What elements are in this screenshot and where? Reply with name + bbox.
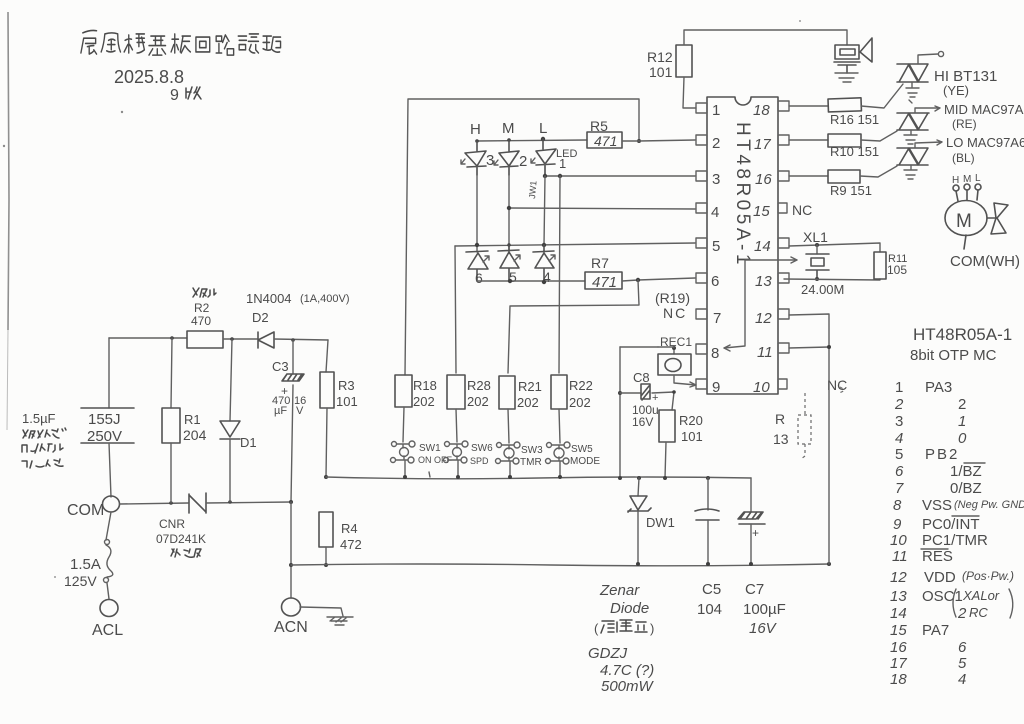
- svg-text:1: 1: [712, 102, 720, 119]
- pin 3: [696, 171, 707, 181]
- triac Q1 HI BT131: [897, 64, 928, 82]
- wire top rail from C1 to R2: [109, 337, 187, 339]
- svg-text:C7: C7: [745, 581, 764, 598]
- svg-text:DW1: DW1: [646, 515, 675, 530]
- svg-text:1: 1: [958, 413, 966, 430]
- svg-text:8: 8: [893, 497, 902, 514]
- switch SW5: [546, 442, 571, 477]
- svg-text:10: 10: [890, 532, 907, 549]
- resistor R13 dashed (absent): [798, 387, 844, 459]
- svg-text:9: 9: [712, 379, 720, 396]
- triac Q2 MID MAC97A6: [897, 113, 929, 130]
- pin 18: [778, 101, 789, 111]
- wire left rail of REC1: [619, 347, 621, 477]
- svg-text:104: 104: [697, 601, 722, 618]
- svg-text:13: 13: [890, 588, 907, 605]
- svg-text:6: 6: [958, 639, 967, 656]
- svg-text:SW3: SW3: [521, 445, 543, 456]
- wire R16 to triac HI gate: [861, 84, 903, 108]
- svg-text:R9 151: R9 151: [830, 183, 872, 198]
- node R1 top: [170, 336, 174, 340]
- svg-text:R3: R3: [338, 378, 355, 393]
- svg-text:7: 7: [895, 480, 904, 497]
- pin 11: [778, 343, 789, 353]
- svg-text:PA7: PA7: [922, 622, 949, 639]
- svg-text:HT48R05A-1: HT48R05A-1: [913, 325, 1012, 344]
- resistor R10 151: [828, 134, 861, 147]
- svg-text:101: 101: [336, 394, 358, 409]
- svg-text:V: V: [296, 405, 304, 417]
- pin 13: [778, 273, 789, 283]
- wire REC1 to R20: [672, 392, 674, 410]
- wire left vertical down to C1: [108, 338, 110, 408]
- node ACN/COM junction: [289, 500, 293, 504]
- svg-text:PB2: PB2: [925, 446, 959, 463]
- pin 10 NC: [778, 379, 787, 389]
- svg-text:SW1: SW1: [419, 443, 441, 454]
- svg-text:R21: R21: [518, 379, 542, 394]
- op-amp U1 body: [707, 97, 778, 394]
- svg-text:202: 202: [467, 394, 489, 409]
- svg-text:100µF: 100µF: [743, 601, 786, 618]
- svg-text:6: 6: [711, 273, 719, 290]
- svg-text:18: 18: [753, 102, 770, 119]
- pin 5: [696, 238, 707, 248]
- pin 12: [778, 309, 789, 319]
- pin 15 NC: [778, 203, 787, 213]
- svg-text:471: 471: [594, 133, 617, 149]
- svg-text:4: 4: [895, 430, 903, 447]
- svg-text:PC1/TMR: PC1/TMR: [922, 532, 988, 549]
- svg-text:L: L: [539, 120, 547, 137]
- capacitor C3 electrolytic: [292, 340, 294, 374]
- svg-text:µF: µF: [274, 405, 287, 417]
- svg-text:9: 9: [170, 87, 179, 104]
- svg-text:16: 16: [890, 639, 907, 656]
- svg-text:3: 3: [712, 171, 720, 188]
- svg-text:1N4004: 1N4004: [246, 291, 292, 306]
- svg-text:16V: 16V: [632, 415, 653, 429]
- wire pin18 to R16: [789, 105, 828, 107]
- overline RES pin11: [921, 548, 948, 550]
- svg-text:9: 9: [893, 516, 902, 533]
- svg-text:24.00M: 24.00M: [801, 282, 844, 297]
- svg-text:RC: RC: [969, 605, 988, 620]
- svg-text:8bit OTP MC: 8bit OTP MC: [910, 347, 997, 364]
- resistor R20 101: [659, 410, 675, 442]
- title kanji 扇風機基板回路読取: [81, 30, 281, 55]
- svg-text:SPD: SPD: [470, 456, 489, 466]
- svg-text:H: H: [470, 121, 481, 138]
- svg-text:R28: R28: [467, 378, 491, 393]
- node C3 top: [291, 338, 295, 342]
- svg-text:15: 15: [753, 203, 770, 220]
- svg-text:3: 3: [895, 413, 903, 430]
- svg-text:07D241K: 07D241K: [156, 532, 206, 546]
- svg-text:202: 202: [413, 394, 435, 409]
- svg-text:13: 13: [773, 431, 789, 447]
- paper specks: [799, 20, 801, 22]
- svg-text:2: 2: [519, 153, 527, 170]
- svg-text:1.5A: 1.5A: [70, 556, 101, 573]
- svg-text:204: 204: [183, 427, 207, 443]
- svg-text:16: 16: [755, 171, 772, 188]
- paper edge shadow: [8, 12, 9, 330]
- resistor R22: [551, 375, 567, 409]
- pin 7: [696, 309, 707, 319]
- svg-text:15: 15: [890, 622, 907, 639]
- capacitor C5: [706, 476, 710, 480]
- wire R5 to pin2: [622, 140, 695, 141]
- svg-text:3: 3: [486, 152, 494, 169]
- svg-text:ON OFF: ON OFF: [418, 455, 452, 465]
- wire REC1 to pin9: [674, 375, 696, 387]
- svg-text:472: 472: [340, 537, 362, 552]
- wire COM line to CNR: [120, 503, 188, 504]
- resistor R4: [324, 475, 328, 479]
- svg-text:11: 11: [892, 548, 908, 565]
- svg-text:17: 17: [754, 136, 771, 153]
- resistor R11 105: [874, 252, 886, 279]
- ground at ACN: [300, 607, 353, 625]
- pin 2: [696, 135, 707, 145]
- svg-text:): ): [650, 621, 654, 636]
- svg-text:(RE): (RE): [952, 117, 977, 131]
- svg-text:R4: R4: [341, 521, 358, 536]
- ground triac LO: [904, 165, 917, 179]
- svg-text:JW1: JW1: [527, 180, 539, 199]
- svg-text:+: +: [752, 526, 759, 540]
- triac Q3 LO MAC97A6: [897, 148, 928, 165]
- svg-text:18: 18: [890, 671, 907, 688]
- wire VSS switch bus: [326, 477, 751, 479]
- pin 16: [778, 171, 789, 181]
- svg-text:C8: C8: [633, 370, 650, 385]
- svg-text:1: 1: [895, 379, 903, 396]
- buzzer BZ piezo: [834, 45, 860, 73]
- wire top loop rail: [405, 99, 639, 375]
- pin list rows: [890, 379, 1024, 688]
- capacitor C7 electrolytic: [750, 478, 752, 512]
- wire LED top row: [477, 140, 587, 141]
- svg-text:202: 202: [517, 395, 539, 410]
- wire pin17 to R10: [789, 139, 828, 141]
- LED1 L: [536, 139, 556, 176]
- svg-text:4.7C (?): 4.7C (?): [600, 662, 654, 679]
- svg-text:5: 5: [712, 238, 720, 255]
- wire pin11: [789, 347, 829, 348]
- svg-text:(1A,400V): (1A,400V): [300, 293, 350, 305]
- svg-text:(YE): (YE): [943, 83, 969, 98]
- svg-text:COM(WH): COM(WH): [950, 253, 1020, 270]
- svg-text:M: M: [956, 211, 972, 232]
- capacitor C1 155J film: [81, 408, 134, 443]
- wire C1 to COM: [109, 443, 111, 497]
- pin 17: [778, 135, 789, 145]
- svg-text:R: R: [775, 411, 785, 427]
- svg-text:C3: C3: [272, 359, 289, 374]
- LED3 H: [465, 141, 486, 175]
- svg-text:R2: R2: [194, 301, 210, 315]
- wire triac HI to terminal: [918, 54, 938, 64]
- svg-text:4: 4: [958, 671, 966, 688]
- wire R10 to triac MID gate: [861, 131, 897, 141]
- svg-text:471: 471: [592, 274, 617, 291]
- svg-text:L: L: [975, 173, 981, 184]
- switch SW6: [444, 441, 469, 477]
- wire pin4 net: [509, 208, 695, 209]
- resistor R21: [499, 376, 515, 409]
- jumper JW1: [544, 176, 545, 245]
- pin 8: [696, 344, 707, 354]
- svg-text:ACN: ACN: [274, 619, 308, 636]
- pin 1: [696, 103, 707, 113]
- svg-text:PA3: PA3: [925, 379, 952, 396]
- node D1 top: [230, 337, 234, 341]
- svg-text:5: 5: [895, 446, 903, 463]
- svg-text:VSS: VSS: [922, 497, 952, 514]
- terminal ACN: [282, 598, 301, 616]
- svg-text:1: 1: [559, 156, 566, 171]
- overline BZ pin6: [964, 462, 985, 464]
- svg-text:2: 2: [712, 135, 720, 152]
- wire R22 column from pin3 net: [559, 176, 560, 373]
- svg-text:PC0/INT: PC0/INT: [922, 516, 980, 533]
- svg-text:101: 101: [649, 64, 673, 80]
- svg-text:202: 202: [569, 395, 591, 410]
- svg-text:SW5: SW5: [571, 444, 593, 455]
- svg-text:11: 11: [757, 344, 773, 361]
- resistor R9 151: [828, 170, 860, 183]
- wire pin16 to R9: [789, 175, 828, 177]
- fan blades: [987, 203, 1008, 234]
- svg-text:LO MAC97A6: LO MAC97A6: [946, 135, 1024, 150]
- svg-text:(BL): (BL): [952, 151, 975, 165]
- svg-text:R20: R20: [679, 413, 703, 428]
- svg-text:NC: NC: [663, 305, 687, 321]
- svg-text:2: 2: [894, 396, 904, 413]
- svg-text:500mW: 500mW: [601, 678, 655, 695]
- svg-text:M: M: [502, 120, 515, 137]
- svg-text:0/BZ: 0/BZ: [950, 480, 982, 497]
- LED6: [466, 251, 488, 281]
- ground at buzzer: [835, 73, 858, 82]
- svg-text:0: 0: [958, 430, 967, 447]
- svg-text:VDD: VDD: [924, 569, 956, 586]
- svg-text:COM: COM: [67, 502, 104, 519]
- svg-text:MID MAC97A6: MID MAC97A6: [944, 102, 1024, 117]
- svg-text:1.5µF: 1.5µF: [22, 411, 56, 426]
- wire R2 to D2: [223, 338, 257, 340]
- svg-text:7: 7: [713, 310, 721, 327]
- svg-text:R12: R12: [647, 49, 673, 65]
- svg-text:(: (: [594, 621, 599, 636]
- pin 4: [696, 203, 707, 213]
- overline INT pin9: [952, 515, 979, 517]
- svg-text:R16 151: R16 151: [830, 112, 879, 127]
- pin 9: [696, 379, 707, 389]
- resistor R3: [326, 340, 328, 372]
- svg-text:SW6: SW6: [471, 443, 493, 454]
- svg-text:XALor: XALor: [962, 588, 1000, 603]
- LED5: [498, 245, 519, 281]
- svg-text:GDZJ: GDZJ: [588, 645, 628, 662]
- ground triac MID: [904, 130, 917, 144]
- svg-text:(Neg Pw. GND): (Neg Pw. GND): [954, 499, 1024, 511]
- pin 14: [778, 238, 789, 248]
- speaker cone: [860, 38, 872, 62]
- wire pin6 branch down to R21: [508, 280, 639, 373]
- switch SW1: [391, 441, 416, 477]
- svg-text:ACL: ACL: [92, 622, 123, 639]
- wire arrow to LO label: [915, 140, 942, 148]
- svg-text:Diode: Diode: [610, 600, 649, 617]
- varistor CNR symbol: [189, 493, 206, 513]
- wire LED bottom row: [477, 280, 585, 282]
- big parens XAL/RC: [953, 589, 1013, 618]
- pin 6: [696, 273, 707, 283]
- svg-text:NC: NC: [827, 377, 847, 393]
- svg-text:HT48R05A-1: HT48R05A-1: [732, 122, 753, 268]
- node R5 right junction: [637, 139, 641, 143]
- svg-text:10: 10: [753, 379, 770, 396]
- wire pin13 to R11 bottom: [784, 279, 880, 280]
- wire pin5 net: [455, 243, 695, 246]
- svg-text:NC: NC: [792, 202, 812, 218]
- svg-text:R10 151: R10 151: [830, 144, 879, 159]
- wire H column: [476, 167, 478, 252]
- svg-text:12: 12: [755, 310, 772, 327]
- wire R7 to pin6: [622, 278, 695, 281]
- svg-text:1/BZ: 1/BZ: [950, 463, 982, 480]
- wire R12 top rail to buzzer: [684, 30, 847, 45]
- LED4: [533, 245, 554, 282]
- svg-text:250V: 250V: [87, 428, 122, 445]
- svg-text:5: 5: [958, 655, 967, 672]
- diode D1: [230, 339, 232, 421]
- wire osc annotation pin8 to crystal: [724, 257, 797, 351]
- node D1 bottom: [228, 500, 232, 504]
- node R1 bottom: [169, 501, 173, 505]
- svg-text:(Pos·Pw.): (Pos·Pw.): [962, 569, 1014, 583]
- svg-text:4: 4: [711, 204, 719, 221]
- svg-text:17: 17: [890, 655, 907, 672]
- resistor R18: [395, 375, 412, 407]
- svg-text:6: 6: [895, 463, 904, 480]
- svg-text:R22: R22: [569, 378, 593, 393]
- LED2 M: [499, 140, 519, 175]
- svg-text:14: 14: [754, 238, 771, 255]
- resistor R16 151: [828, 98, 861, 112]
- svg-text:125V: 125V: [64, 573, 97, 589]
- switch SW3: [496, 442, 521, 477]
- capacitor C8 electrolytic: [618, 391, 622, 395]
- svg-text:TMR: TMR: [520, 457, 542, 468]
- svg-text:101: 101: [681, 429, 703, 444]
- wire pin3 net: [545, 164, 695, 176]
- svg-text:C5: C5: [702, 581, 721, 598]
- svg-text:R1: R1: [184, 412, 201, 427]
- diode D2 1N4004: [258, 332, 274, 348]
- wire arrow to MID label: [915, 106, 940, 113]
- wire R12 to pin1: [683, 77, 696, 108]
- wire pin12 down right rail: [789, 314, 829, 564]
- svg-text:8: 8: [711, 345, 719, 362]
- resistor R28: [447, 375, 465, 409]
- svg-text:6: 6: [475, 270, 483, 286]
- svg-text:Zenar: Zenar: [599, 582, 640, 599]
- terminal COM: [103, 496, 120, 512]
- svg-text:MODE: MODE: [570, 456, 600, 467]
- svg-text:D2: D2: [252, 310, 269, 325]
- svg-text:2: 2: [958, 396, 966, 413]
- ground triac HI: [906, 82, 919, 103]
- svg-text:CNR: CNR: [159, 517, 185, 531]
- svg-text:470: 470: [191, 314, 211, 328]
- wire M column: [508, 167, 510, 252]
- svg-text:OSC1: OSC1: [922, 588, 963, 605]
- fuse 1.5A 125V: [106, 512, 111, 540]
- wire pin14 to R11: [789, 243, 880, 252]
- svg-text:12: 12: [890, 569, 907, 586]
- svg-text:16V: 16V: [749, 620, 778, 637]
- label メタル R2 470: [193, 288, 216, 297]
- zener DW1: [637, 476, 641, 480]
- svg-text:D1: D1: [240, 435, 257, 450]
- svg-text:(R19): (R19): [655, 290, 690, 306]
- resistor R1: [171, 338, 172, 408]
- svg-text:13: 13: [755, 273, 772, 290]
- wire CNR to ACN line: [206, 502, 291, 503]
- svg-text:14: 14: [890, 605, 907, 622]
- svg-text:155J: 155J: [88, 411, 121, 428]
- svg-text:RES: RES: [922, 548, 953, 565]
- svg-text:2: 2: [957, 605, 967, 622]
- svg-text:2025.8.8: 2025.8.8: [114, 67, 184, 87]
- svg-text:R18: R18: [413, 378, 437, 393]
- node ACN bottom-bus junction: [289, 563, 293, 567]
- terminal ACL: [100, 600, 118, 617]
- resistor R2: [187, 331, 223, 348]
- svg-text:R7: R7: [591, 255, 609, 271]
- wire bottom neutral bus: [291, 564, 829, 566]
- svg-text:105: 105: [887, 263, 907, 277]
- wire D2 to corner: [274, 339, 328, 340]
- svg-text:XL1: XL1: [803, 229, 828, 245]
- wire R9 to triac LO gate: [860, 166, 897, 177]
